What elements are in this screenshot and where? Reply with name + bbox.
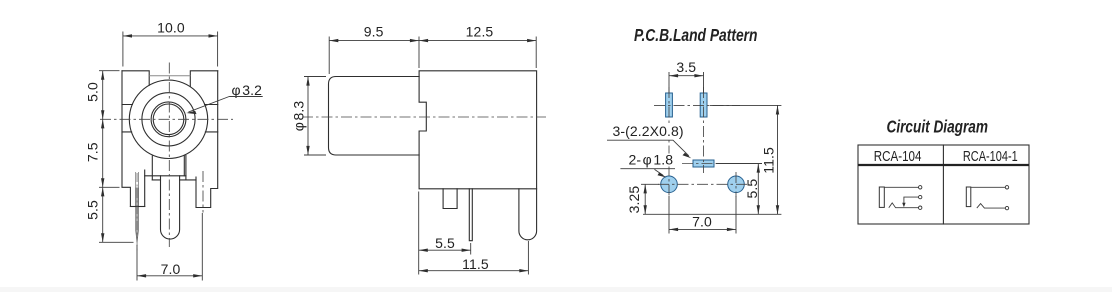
svg-text:P.C.B.Land Pattern: P.C.B.Land Pattern [634, 25, 758, 45]
table frame [858, 145, 1029, 224]
middle slot pad [693, 160, 714, 167]
front body outline right side [196, 71, 218, 208]
jack sleeve rect left cell [879, 187, 884, 207]
groove bottom line [149, 75, 190, 77]
horizontal centerline front [100, 118, 233, 120]
needle centerline [136, 173, 138, 251]
left dimension chain line [99, 71, 134, 243]
needle pin slot lines [136, 172, 139, 207]
barrel [329, 77, 420, 156]
vertical centerline left column [668, 87, 670, 198]
svg-text:7.0: 7.0 [161, 261, 181, 277]
front body underside bottom line [152, 179, 196, 181]
right leg centerline [202, 171, 204, 213]
svg-text:10.0: 10.0 [157, 20, 185, 36]
svg-text:2-φ1.8: 2-φ1.8 [629, 152, 674, 168]
side view group [291, 23, 547, 274]
svg-text:5.5: 5.5 [85, 200, 101, 220]
svg-text:5.0: 5.0 [85, 82, 101, 102]
side body with notch [419, 71, 536, 189]
side web lines right [205, 105, 218, 132]
tip contact zigzag right cell [977, 204, 1006, 209]
label 3-(2.2X0.8) with underline and leader [611, 125, 686, 138]
middle wire left cell [904, 197, 919, 203]
table header separator [858, 164, 1029, 166]
svg-text:5.5: 5.5 [744, 179, 760, 199]
circuit diagram group [858, 117, 1029, 225]
vertical centerline right circle [735, 172, 737, 197]
middle circle [142, 93, 195, 146]
bottom terminal circle left cell [919, 206, 922, 209]
table column divider [942, 145, 944, 224]
right slot pad [700, 93, 707, 117]
front view group [85, 20, 263, 281]
right round pin side [519, 189, 537, 240]
svg-text:7.0: 7.0 [692, 214, 712, 230]
top wire left cell [884, 186, 918, 188]
jack sleeve rect right cell [966, 187, 971, 207]
front body outline left side [122, 71, 145, 207]
svg-text:11.5: 11.5 [761, 147, 777, 174]
needle pin [136, 188, 139, 242]
side web lines left [122, 105, 132, 132]
svg-text:3.5: 3.5 [676, 59, 696, 75]
bottom light band [0, 287, 1112, 292]
svg-text:φ8.3: φ8.3 [291, 101, 307, 132]
svg-text:3.25: 3.25 [626, 186, 642, 214]
outer circle [129, 80, 207, 158]
tip contact zigzag left cell [889, 203, 919, 208]
baseline [643, 213, 781, 215]
left circle pad [661, 176, 678, 193]
svg-text:φ3.2: φ3.2 [232, 82, 263, 98]
top wire right cell [971, 186, 1006, 188]
horizontal centerline middle slot [682, 163, 724, 165]
horizontal centerline circles [658, 183, 747, 185]
hole circle phi3.2 [153, 104, 184, 135]
label 2-phi1.8 with underline and leader [627, 154, 677, 167]
front body top edge with groove [122, 71, 218, 87]
thin middle pin side [469, 189, 472, 241]
top terminal circle right cell [1005, 186, 1008, 189]
side centerline [302, 116, 546, 118]
svg-text:7.5: 7.5 [85, 142, 101, 162]
vertical centerline right column [703, 87, 705, 173]
ring circle [151, 102, 186, 137]
pcb land pattern group [607, 25, 781, 234]
bottom terminal circle right cell [1005, 206, 1008, 209]
horizontal centerline slots [654, 104, 740, 106]
svg-text:3-(2.2X0.8): 3-(2.2X0.8) [613, 123, 684, 139]
top terminal circle left cell [919, 186, 922, 189]
switch arrow left cell [902, 203, 905, 207]
svg-text:RCA-104-1: RCA-104-1 [963, 148, 1018, 165]
svg-text:RCA-104: RCA-104 [874, 148, 922, 165]
small pin side [443, 189, 457, 209]
svg-text:Circuit Diagram: Circuit Diagram [887, 117, 989, 137]
svg-text:9.5: 9.5 [364, 23, 384, 39]
right circle pad [728, 176, 745, 193]
svg-text:11.5: 11.5 [462, 256, 489, 272]
center block sides [152, 156, 186, 180]
front body underside ledge line [145, 175, 186, 177]
svg-text:5.5: 5.5 [435, 235, 455, 251]
left leg bottom over needle [130, 206, 144, 208]
vertical centerline front [168, 63, 170, 248]
center pin [161, 176, 180, 239]
left slot pad [666, 93, 673, 117]
middle terminal circle left cell [919, 195, 922, 198]
svg-text:12.5: 12.5 [466, 23, 494, 39]
